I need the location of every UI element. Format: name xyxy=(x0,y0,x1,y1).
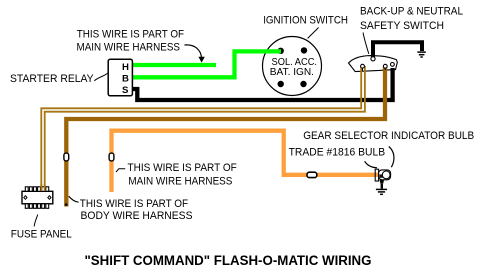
leader: middle main harness xyxy=(116,169,125,172)
leader: safety switch xyxy=(363,33,369,54)
wire: black ground wire from safety switch top xyxy=(373,42,422,58)
wire: tan outlined wire (fuse panel to safety switch terminal) xyxy=(41,66,365,191)
wire: tan wire overlay into fuse panel xyxy=(41,184,44,191)
connector on orange vertical wire xyxy=(109,153,114,161)
ground symbol (bulb) xyxy=(376,189,387,194)
ignition switch body xyxy=(263,37,322,96)
safety switch center terminal xyxy=(371,57,375,61)
leader: ignition switch xyxy=(308,28,319,39)
svg-text:FUSE PANEL: FUSE PANEL xyxy=(11,229,72,241)
fuse panel xyxy=(22,184,53,208)
svg-text:S: S xyxy=(122,85,129,96)
svg-text:THIS WIRE IS PART OF: THIS WIRE IS PART OF xyxy=(128,162,238,174)
back-up & neutral safety switch body xyxy=(349,56,398,72)
safety switch terminal 1 xyxy=(361,64,365,71)
svg-text:MAIN WIRE HARNESS: MAIN WIRE HARNESS xyxy=(128,176,232,188)
leader: body harness curve xyxy=(69,196,79,202)
svg-text:GEAR SELECTOR INDICATOR BULB: GEAR SELECTOR INDICATOR BULB xyxy=(303,130,474,142)
safety switch terminal 3 xyxy=(391,63,395,67)
leader arrow to green wire xyxy=(185,45,205,63)
svg-text:THIS WIRE IS PART OF: THIS WIRE IS PART OF xyxy=(80,198,189,210)
svg-text:MAIN WIRE HARNESS: MAIN WIRE HARNESS xyxy=(77,41,181,53)
svg-text:BODY WIRE HARNESS: BODY WIRE HARNESS xyxy=(81,210,193,222)
connector on orange horizontal wire xyxy=(307,172,317,177)
svg-text:"SHIFT COMMAND" FLASH-O-MATIC: "SHIFT COMMAND" FLASH-O-MATIC WIRING xyxy=(85,253,372,269)
svg-text:BAT. IGN.: BAT. IGN. xyxy=(270,67,314,78)
svg-text:IGNITION SWITCH: IGNITION SWITCH xyxy=(263,14,348,26)
ground symbol (top right) xyxy=(417,52,425,57)
wire: green wire from starter relay B terminal to ignition switch xyxy=(131,51,281,77)
connector on brown wire xyxy=(64,153,69,161)
svg-text:BACK-UP & NEUTRAL: BACK-UP & NEUTRAL xyxy=(360,6,463,18)
svg-text:THIS WIRE IS PART OF: THIS WIRE IS PART OF xyxy=(77,29,184,41)
svg-text:B: B xyxy=(122,74,129,85)
wire: orange wire (main harness to indicator bulb) xyxy=(112,131,379,192)
svg-text:STARTER RELAY: STARTER RELAY xyxy=(10,73,94,85)
svg-text:H: H xyxy=(122,62,129,73)
wire: green wire from starter relay H terminal xyxy=(131,63,216,67)
safety switch terminal 2 xyxy=(383,64,387,70)
starter relay box xyxy=(108,59,132,96)
leader: fuse panel xyxy=(34,215,38,227)
leader: tilde curve to bulb xyxy=(365,161,377,168)
wire: black wire from starter relay S terminal to safety switch xyxy=(131,68,393,100)
svg-text:SAFETY SWITCH: SAFETY SWITCH xyxy=(360,20,444,32)
gear selector indicator bulb xyxy=(375,169,390,188)
wire: brown wire (body harness to safety switch terminal) xyxy=(65,66,385,207)
svg-text:TRADE #1816 BULB: TRADE #1816 BULB xyxy=(289,146,386,158)
leader: paren curve to bulb xyxy=(389,147,394,168)
leader: starter relay xyxy=(94,73,107,80)
ignition switch terminal dots xyxy=(278,47,308,87)
